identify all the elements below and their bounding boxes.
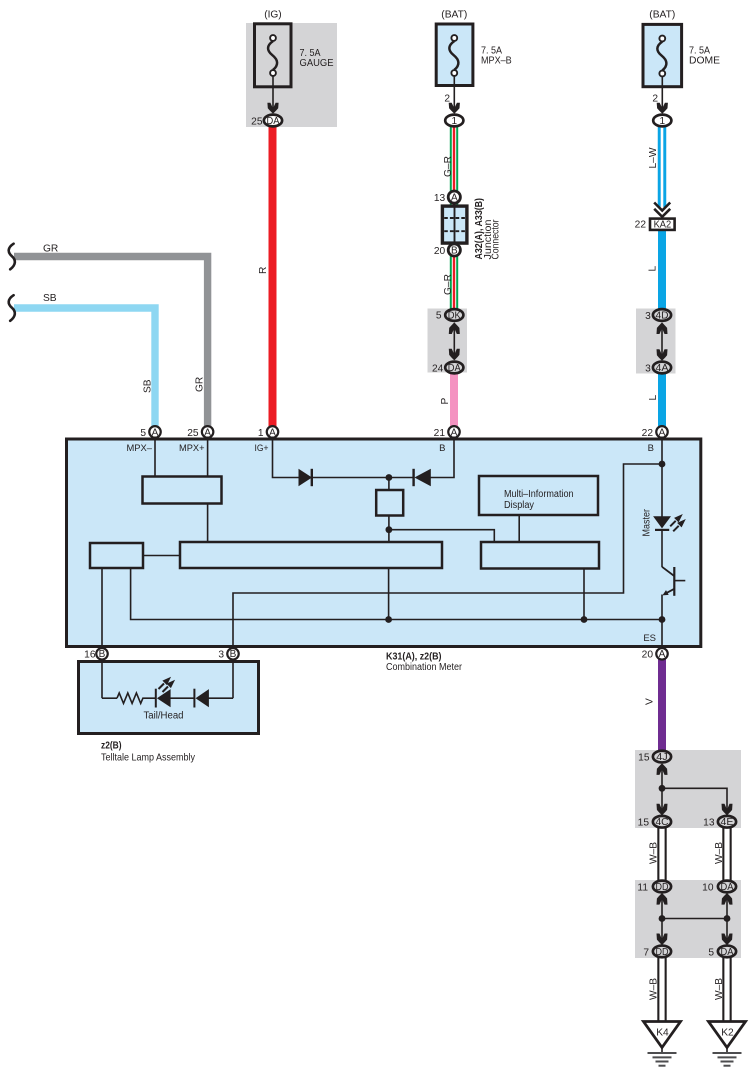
svg-text:A: A (451, 193, 458, 204)
svg-text:5: 5 (436, 310, 442, 321)
svg-text:A: A (269, 427, 276, 438)
svg-text:MPX+: MPX+ (179, 443, 205, 454)
svg-text:4C: 4C (656, 817, 669, 828)
svg-text:A: A (204, 427, 211, 438)
svg-text:2: 2 (444, 94, 450, 105)
svg-text:L: L (648, 266, 659, 272)
svg-text:R: R (258, 267, 269, 274)
svg-text:5: 5 (140, 428, 146, 439)
svg-text:G–R: G–R (443, 274, 454, 295)
svg-text:4E: 4E (721, 817, 734, 828)
svg-text:DA: DA (721, 882, 734, 893)
svg-text:B: B (99, 649, 106, 660)
svg-text:W–B: W–B (648, 842, 659, 864)
svg-text:11: 11 (637, 882, 648, 893)
svg-text:B: B (648, 443, 654, 454)
svg-text:Multi–Information: Multi–Information (504, 489, 574, 500)
svg-text:21: 21 (434, 428, 446, 439)
svg-text:G–R: G–R (443, 156, 454, 177)
svg-text:Telltale Lamp Assembly: Telltale Lamp Assembly (101, 752, 196, 763)
svg-text:Tail/Head: Tail/Head (144, 711, 184, 722)
svg-text:Combination Meter: Combination Meter (386, 662, 463, 673)
svg-text:13: 13 (434, 193, 446, 204)
svg-text:V: V (645, 698, 656, 705)
svg-text:DOME: DOME (689, 56, 720, 67)
svg-text:ES: ES (643, 633, 656, 644)
svg-text:20: 20 (642, 650, 654, 661)
svg-text:A: A (451, 427, 458, 438)
svg-text:15: 15 (638, 753, 650, 764)
svg-text:20: 20 (434, 246, 446, 257)
svg-text:SB: SB (43, 293, 57, 304)
svg-text:P: P (440, 398, 451, 405)
svg-text:GAUGE: GAUGE (300, 58, 334, 69)
svg-text:4J: 4J (656, 752, 668, 763)
svg-text:22: 22 (635, 219, 647, 230)
svg-text:SB: SB (143, 379, 154, 393)
svg-text:KA2: KA2 (654, 219, 672, 230)
svg-text:B: B (230, 649, 237, 660)
svg-text:1: 1 (452, 116, 458, 127)
svg-text:3: 3 (645, 311, 651, 322)
svg-text:3: 3 (645, 363, 651, 374)
svg-text:10: 10 (702, 882, 714, 893)
svg-text:4D: 4D (656, 310, 669, 321)
svg-text:DA: DA (721, 947, 734, 958)
svg-text:W–B: W–B (714, 978, 725, 1000)
svg-text:B: B (439, 443, 445, 454)
svg-text:5: 5 (708, 947, 714, 958)
svg-text:GR: GR (43, 244, 58, 255)
svg-text:z2(B): z2(B) (101, 741, 122, 752)
svg-text:16: 16 (84, 650, 96, 661)
svg-text:3: 3 (218, 650, 224, 661)
svg-text:A: A (659, 427, 666, 438)
svg-text:L: L (648, 395, 659, 401)
svg-text:K4: K4 (656, 1028, 669, 1039)
svg-text:25: 25 (187, 428, 199, 439)
svg-text:IG+: IG+ (255, 443, 269, 454)
svg-text:W–B: W–B (714, 842, 725, 864)
svg-text:W–B: W–B (648, 978, 659, 1000)
svg-text:A: A (152, 427, 159, 438)
svg-text:MPX–: MPX– (127, 443, 153, 454)
svg-text:Connector: Connector (491, 219, 502, 260)
svg-text:(BAT): (BAT) (441, 10, 467, 21)
svg-text:DD: DD (656, 947, 669, 958)
svg-text:4A: 4A (656, 363, 669, 374)
svg-text:A: A (659, 649, 666, 660)
svg-text:GR: GR (194, 377, 205, 392)
svg-text:B: B (451, 246, 458, 257)
svg-text:22: 22 (642, 428, 654, 439)
svg-text:24: 24 (432, 363, 444, 374)
svg-text:15: 15 (638, 818, 650, 829)
svg-text:DD: DD (656, 882, 669, 893)
svg-text:13: 13 (703, 818, 715, 829)
svg-text:1: 1 (258, 428, 264, 439)
svg-text:L–W: L–W (648, 147, 659, 168)
svg-text:DA: DA (267, 116, 280, 127)
svg-text:MPX–B: MPX–B (481, 56, 512, 67)
svg-text:2: 2 (652, 94, 658, 105)
svg-text:1: 1 (660, 116, 666, 127)
svg-text:DK: DK (448, 310, 461, 321)
svg-text:7: 7 (643, 947, 649, 958)
svg-text:K2: K2 (721, 1028, 734, 1039)
svg-text:25: 25 (251, 116, 263, 127)
svg-text:DA: DA (448, 363, 461, 374)
svg-text:Master: Master (641, 508, 652, 536)
svg-text:(IG): (IG) (264, 10, 282, 21)
svg-text:Display: Display (504, 500, 534, 511)
svg-text:(BAT): (BAT) (649, 10, 675, 21)
